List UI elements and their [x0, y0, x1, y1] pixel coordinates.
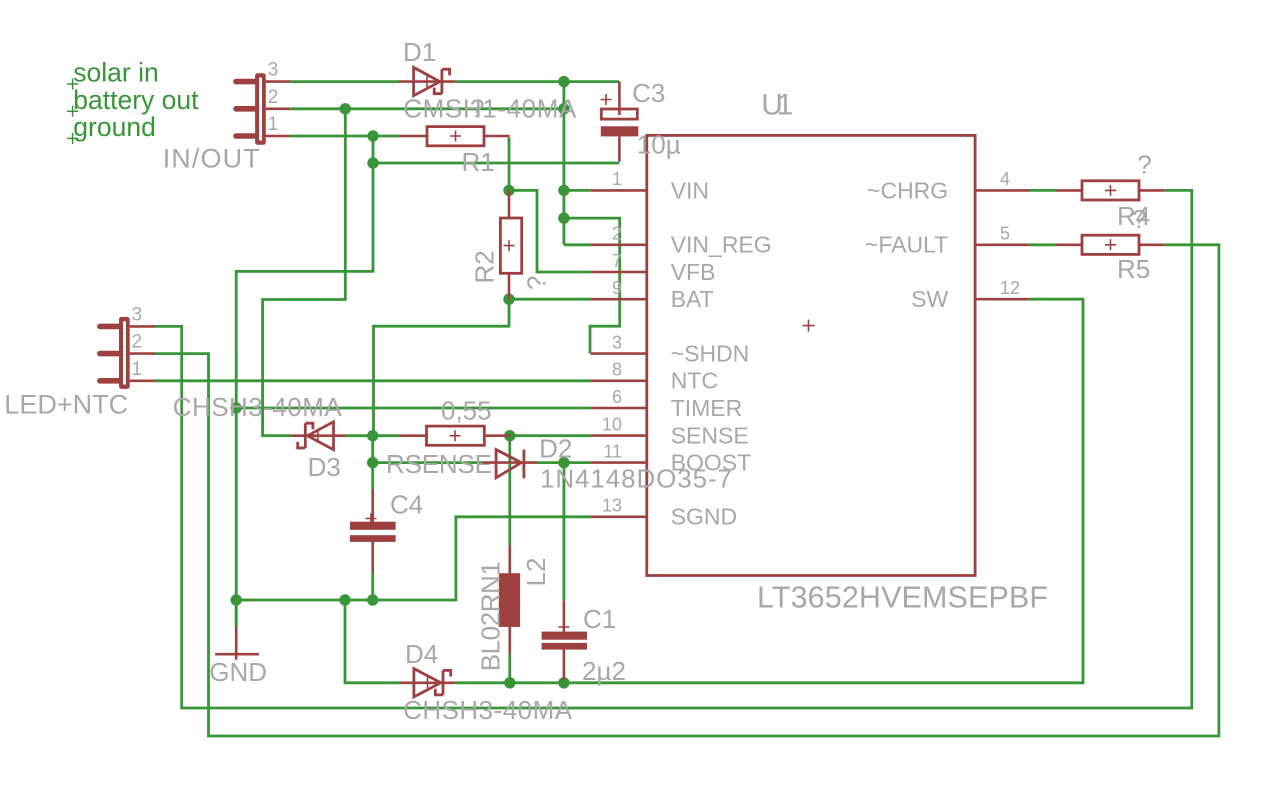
svg-text:R1: R1 [462, 147, 495, 177]
diode D1 schottky CMSH1-40MA [399, 67, 455, 95]
svg-text:D4: D4 [405, 639, 438, 669]
ground symbol GND [215, 600, 259, 660]
junction VIN pin stub [558, 185, 569, 196]
wire net VIN: main vertical at D1 cathode down to VIN_REG [563, 82, 566, 245]
R4 name label [1117, 201, 1150, 231]
U1 pin 8 NTC [591, 360, 718, 394]
svg-text:~FAULT: ~FAULT [865, 232, 948, 258]
svg-text:BAT: BAT [671, 286, 714, 312]
svg-text:8: 8 [612, 360, 622, 380]
C3 name label [632, 78, 665, 108]
R2 name label rotated [470, 250, 500, 283]
wire net BAT: to D2 anode [373, 461, 483, 464]
svg-text:10: 10 [602, 414, 622, 434]
junction GND C4 bottom [367, 594, 378, 605]
R1 value label ? [470, 93, 484, 123]
svg-text:C3: C3 [632, 78, 665, 108]
node anchor cross solar in [67, 78, 78, 89]
capacitor C4 [350, 490, 396, 574]
wire net SENSE: L2 bottom to SW row [508, 654, 511, 683]
U1 origin cross [803, 320, 815, 332]
svg-text:GND: GND [209, 657, 267, 687]
GND name label [209, 657, 267, 687]
junction VIN at D1 cathode [558, 76, 569, 87]
svg-text:R5: R5 [1117, 254, 1150, 284]
wire net FAULT: pin5 to R5 [1029, 243, 1056, 246]
RSENSE value label 0,55 [441, 396, 492, 426]
wire net BOOST: D2 cathode to BOOST pin 11 [537, 461, 591, 464]
connector IN/OUT pad 1 [236, 114, 290, 136]
svg-text:IN/OUT: IN/OUT [163, 144, 260, 174]
wire net GND: TIMER pin 6 row [236, 407, 591, 410]
diode D2 1N4148 [483, 450, 537, 479]
junction VIN battery row [558, 103, 569, 114]
U1 pin 5 ~FAULT [865, 224, 1029, 258]
svg-text:SGND: SGND [671, 504, 737, 530]
wire net VIN: stub to VIN_REG pin 2 [564, 243, 591, 246]
C3 value label 10u [637, 130, 681, 160]
svg-text:5: 5 [1000, 224, 1010, 244]
svg-text:2: 2 [132, 332, 143, 353]
junction GND timer row [231, 402, 242, 413]
junction GND C3 bottom row [367, 157, 378, 168]
wire net GND: down to D4 anode [345, 600, 400, 683]
R5 name label [1117, 254, 1150, 284]
connector IN/OUT name label [163, 144, 260, 174]
U1 pin 4 ~CHRG [867, 169, 1029, 203]
svg-text:VIN: VIN [671, 177, 709, 203]
junction BAT D2 row [367, 457, 378, 468]
wire net GND: C4 bottom to GND row [371, 573, 374, 600]
C1 value label 2u2 [582, 656, 626, 686]
svg-text:12: 12 [1000, 278, 1020, 298]
U1 pin 9 BAT [591, 278, 714, 312]
svg-text:CHSH3-40MA: CHSH3-40MA [403, 695, 573, 725]
D2 name label [539, 433, 572, 463]
svg-text:VIN_REG: VIN_REG [671, 232, 772, 258]
wire net CHRG: R4 right around to LED+NTC pin3 [155, 190, 1192, 708]
junction GND D4 branch [339, 594, 350, 605]
svg-text:RSENSE: RSENSE [386, 449, 492, 479]
connector IN/OUT pad 2 [236, 87, 290, 109]
svg-text:D1: D1 [403, 37, 436, 67]
svg-text:battery out: battery out [73, 85, 199, 115]
U1 pin 12 SW [911, 278, 1029, 312]
svg-text:3: 3 [612, 332, 622, 352]
svg-text:1: 1 [612, 169, 622, 189]
svg-text:BL02RN1: BL02RN1 [475, 561, 505, 671]
capacitor C1 [542, 601, 587, 680]
svg-text:D2: D2 [539, 433, 572, 463]
resistor R2 vertical [500, 190, 521, 299]
connector LED+NTC pad 3 [100, 304, 155, 326]
junction SW C1 bottom [558, 677, 569, 688]
wire net CHRG: SW.. pin4 to R4 [1029, 189, 1056, 192]
wire net VIN: battery-out row pin2 to junction [290, 107, 564, 110]
svg-text:6: 6 [612, 387, 622, 407]
svg-text:3: 3 [268, 60, 279, 81]
RSENSE name label [386, 449, 492, 479]
wire net BAT: R2 bottom to BAT pin 9 [509, 298, 591, 301]
wire net BAT: D3 anode to RSENSE left [346, 434, 399, 437]
svg-text:SENSE: SENSE [671, 423, 749, 449]
connector LED+NTC pad 1 [100, 359, 155, 381]
junction GND bottom row [231, 594, 242, 605]
svg-text:?: ? [1137, 149, 1151, 179]
svg-text:1N4148DO35-7: 1N4148DO35-7 [540, 463, 732, 493]
svg-text:0,55: 0,55 [441, 396, 492, 426]
U1 pin 3 ~SHDN [591, 332, 750, 366]
svg-text:CHSH3-40MA: CHSH3-40MA [173, 392, 343, 422]
D3 value label CHSH3-40MA [173, 392, 343, 422]
D3 name label [308, 452, 341, 482]
svg-text:9: 9 [612, 278, 622, 298]
junction BAT R2 bottom [503, 294, 514, 305]
resistor R4 [1056, 181, 1165, 200]
D4 value label CHSH3-40MA [403, 695, 573, 725]
svg-text:~SHDN: ~SHDN [671, 341, 750, 367]
U1 pin 10 SENSE [591, 414, 749, 448]
C4 name label [390, 490, 423, 520]
svg-text:D3: D3 [308, 452, 341, 482]
svg-text:11: 11 [603, 441, 622, 461]
resistor R1 [399, 127, 509, 146]
resistor R5 [1056, 235, 1165, 254]
node label ground [73, 112, 156, 142]
wire net GND: vertical from pin1 junction down [236, 136, 373, 627]
inductor L2 BL02RN1 [499, 545, 520, 654]
svg-text:LED+NTC: LED+NTC [4, 389, 128, 419]
junction GND pin1/R1 [367, 130, 378, 141]
svg-text:?: ? [522, 276, 552, 290]
svg-text:2: 2 [612, 224, 622, 244]
U1 value label LT3652HVEMSEPBF [757, 580, 1048, 614]
wire net VFB: jog to VFB pin 7 [509, 190, 591, 272]
R5 value label ? overlapping R4 [1132, 204, 1146, 234]
diode D3 schottky CHSH3-40MA [292, 422, 346, 450]
svg-text:13: 13 [602, 496, 622, 516]
U1 pin 6 TIMER [591, 387, 743, 421]
svg-text:U1: U1 [761, 89, 793, 122]
connector IN/OUT pad 3 [236, 60, 290, 82]
D2 value label 1N4148DO35-7 [540, 463, 732, 493]
node label solar in [73, 58, 158, 88]
diode D4 schottky CHSH3-40MA [400, 669, 456, 697]
connector LED+NTC body [119, 317, 130, 389]
wire net GND: IN/OUT pin1 row to R1 left [290, 135, 399, 138]
U1 pin 11 BOOST [591, 441, 752, 475]
svg-text:3: 3 [132, 304, 143, 325]
wire net BAT: jog down to D3 anode junction [374, 299, 510, 436]
junction BAT D3 anode [367, 430, 378, 441]
L2 name label rotated [521, 557, 551, 586]
svg-text:4: 4 [1000, 169, 1010, 189]
wire net VIN/BATTERY-OUT: D1 cathode to C3 top corner [455, 80, 619, 83]
D1 value label CMSH1-40MA [403, 93, 577, 123]
junction SENSE RSENSE right [504, 430, 515, 441]
svg-text:SW: SW [911, 286, 948, 312]
capacitor C3 polarized [601, 82, 639, 162]
D1 name label [403, 37, 436, 67]
connector LED+NTC name label [4, 389, 128, 419]
wire net VIN: jog to ~SHDN pin 3 [564, 218, 620, 354]
C1 name label [583, 604, 616, 634]
svg-text:solar in: solar in [73, 58, 158, 88]
junction BOOST D2 cathode [558, 457, 569, 468]
svg-text:VFB: VFB [671, 259, 716, 285]
connector IN/OUT body [255, 73, 266, 145]
wire net VIN: stub to VIN pin 1 [564, 189, 591, 192]
svg-text:ground: ground [73, 112, 156, 142]
U1 pin 2 VIN_REG [591, 224, 772, 258]
junction SW L2 bottom [504, 677, 515, 688]
wire net SOLAR: IN/OUT pin3 to D1 anode [290, 80, 399, 83]
svg-text:1: 1 [132, 359, 143, 380]
U1 pin 7 VFB [591, 251, 716, 285]
junction VIN battery feed [340, 103, 351, 114]
svg-text:2µ2: 2µ2 [582, 656, 626, 686]
R1 name label [462, 147, 495, 177]
D4 name label [405, 639, 438, 669]
svg-text:1: 1 [268, 114, 279, 135]
wire net VIN: vertical battery feed to D3 [263, 109, 346, 436]
wire net GND: bottom row to SGND riser [236, 517, 591, 600]
U1 name label [761, 89, 793, 122]
wire net VFB: R1 right to R2 top junction [508, 137, 511, 190]
svg-text:LT3652HVEMSEPBF: LT3652HVEMSEPBF [757, 580, 1048, 614]
R4 value label ? [1137, 149, 1151, 179]
wire net SENSE: down to L2 top [508, 436, 511, 545]
wire net GND: C3 bottom row [373, 162, 619, 165]
svg-text:10µ: 10µ [637, 130, 681, 160]
svg-text:TIMER: TIMER [671, 395, 743, 421]
svg-text:C4: C4 [390, 490, 423, 520]
svg-text:?: ? [1132, 204, 1146, 234]
junction VIN shdn jog [558, 212, 569, 223]
connector LED+NTC pad 2 [100, 332, 155, 354]
wire net FAULT: R5 right around to LED+NTC pin2 [155, 245, 1219, 736]
svg-text:CMSH1-40MA: CMSH1-40MA [403, 93, 577, 123]
wire net SW: D4 cathode row to SW pin 12 [455, 299, 1083, 683]
L2 value label BL02RN1 rotated [475, 561, 505, 671]
svg-text:7: 7 [612, 251, 622, 271]
U1 ic body LT3652 [647, 135, 975, 575]
node label battery out [73, 85, 199, 115]
wire net NTC: LED+NTC pin1 to NTC pin 8 [155, 379, 591, 382]
resistor RSENSE [399, 426, 510, 445]
U1 pin 13 SGND [591, 496, 737, 530]
svg-text:~CHRG: ~CHRG [867, 177, 948, 203]
node anchor cross ground [67, 133, 78, 144]
R2 value label ? rotated [522, 276, 552, 290]
wire net BOOST: down to C1 top [563, 463, 566, 601]
svg-text:C1: C1 [583, 604, 616, 634]
wire net BAT: down to C4 top [371, 436, 374, 490]
node anchor cross battery out [67, 106, 78, 117]
svg-text:NTC: NTC [671, 368, 718, 394]
U1 pin 1 VIN [591, 169, 709, 203]
svg-text:2: 2 [268, 87, 279, 108]
wire net SENSE: RSENSE right to SENSE pin 10 [510, 434, 591, 437]
svg-text:?: ? [470, 93, 484, 123]
svg-text:R2: R2 [470, 250, 500, 283]
svg-text:L2: L2 [521, 557, 551, 586]
junction VFB divider [503, 185, 514, 196]
